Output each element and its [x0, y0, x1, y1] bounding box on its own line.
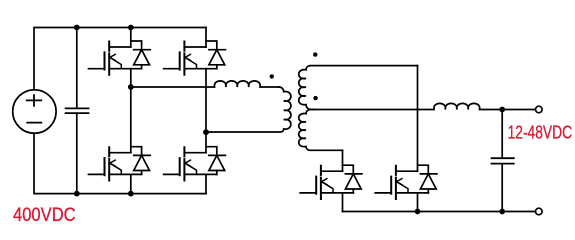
wire Q5 drain from secondary bottom: [342, 150, 344, 171]
wire Q4 source: [205, 174, 207, 193]
inductor L2 output: [434, 103, 480, 109]
wire Q3 source: [130, 174, 132, 193]
node dot top rail / C1: [74, 25, 80, 31]
wire leg A lower: [130, 87, 132, 153]
node dot bottom rail / leg A: [128, 191, 134, 197]
transistor Q6: [375, 165, 437, 199]
transistor Q2: [164, 41, 226, 75]
wire Q5 source: [342, 193, 344, 212]
wire Q6 source: [417, 193, 419, 212]
wire Q1 drain: [130, 28, 132, 48]
transformer T1 primary winding: [206, 87, 291, 132]
node A dot (leg A midpoint): [128, 84, 134, 90]
wire top rail: [34, 28, 206, 90]
transistor Q4: [164, 147, 226, 181]
capacitor C2 output: [501, 110, 503, 212]
transistor Q1: [89, 41, 151, 75]
wire L1 to primary: [260, 86, 279, 88]
transistor Q5: [300, 165, 362, 199]
node dot output line / C2: [499, 107, 505, 113]
terminal - output: [536, 208, 543, 215]
node dot bottom rail / C2: [499, 209, 505, 215]
capacitor C1 input: [76, 28, 78, 194]
phasing dot primary: [270, 74, 274, 78]
wire Q1 source to node A: [130, 69, 132, 87]
wire Q2 drain: [205, 28, 207, 48]
wire bottom output rail: [343, 211, 536, 213]
wire center tap to output: [311, 109, 434, 111]
transistor Q3: [89, 147, 151, 181]
node dot top rail / leg A: [128, 25, 134, 31]
phasing dot secondary lower: [313, 96, 317, 100]
node dot bottom rail / C1: [74, 191, 80, 197]
wire leg B midpoint: [205, 69, 207, 153]
node B dot (leg B / primary return): [203, 129, 209, 135]
svg-text:400VDC: 400VDC: [13, 204, 76, 225]
phasing dot secondary upper: [313, 52, 317, 56]
transformer T1 secondary winding lower: [299, 110, 343, 151]
wire secondary top to Q6 drain: [417, 66, 419, 172]
node dot Q6 source / rail: [415, 209, 421, 215]
wire bottom-left rail: [34, 133, 206, 193]
transformer T1 secondary winding upper: [299, 66, 418, 110]
svg-text:12-48VDC: 12-48VDC: [508, 123, 573, 143]
wire L2 to terminal: [480, 109, 536, 111]
wire node A to L1: [131, 86, 215, 88]
voltage source V1 400VDC: [13, 90, 56, 133]
inductor L1 (series resonant): [214, 81, 260, 87]
terminal + output: [536, 106, 543, 113]
